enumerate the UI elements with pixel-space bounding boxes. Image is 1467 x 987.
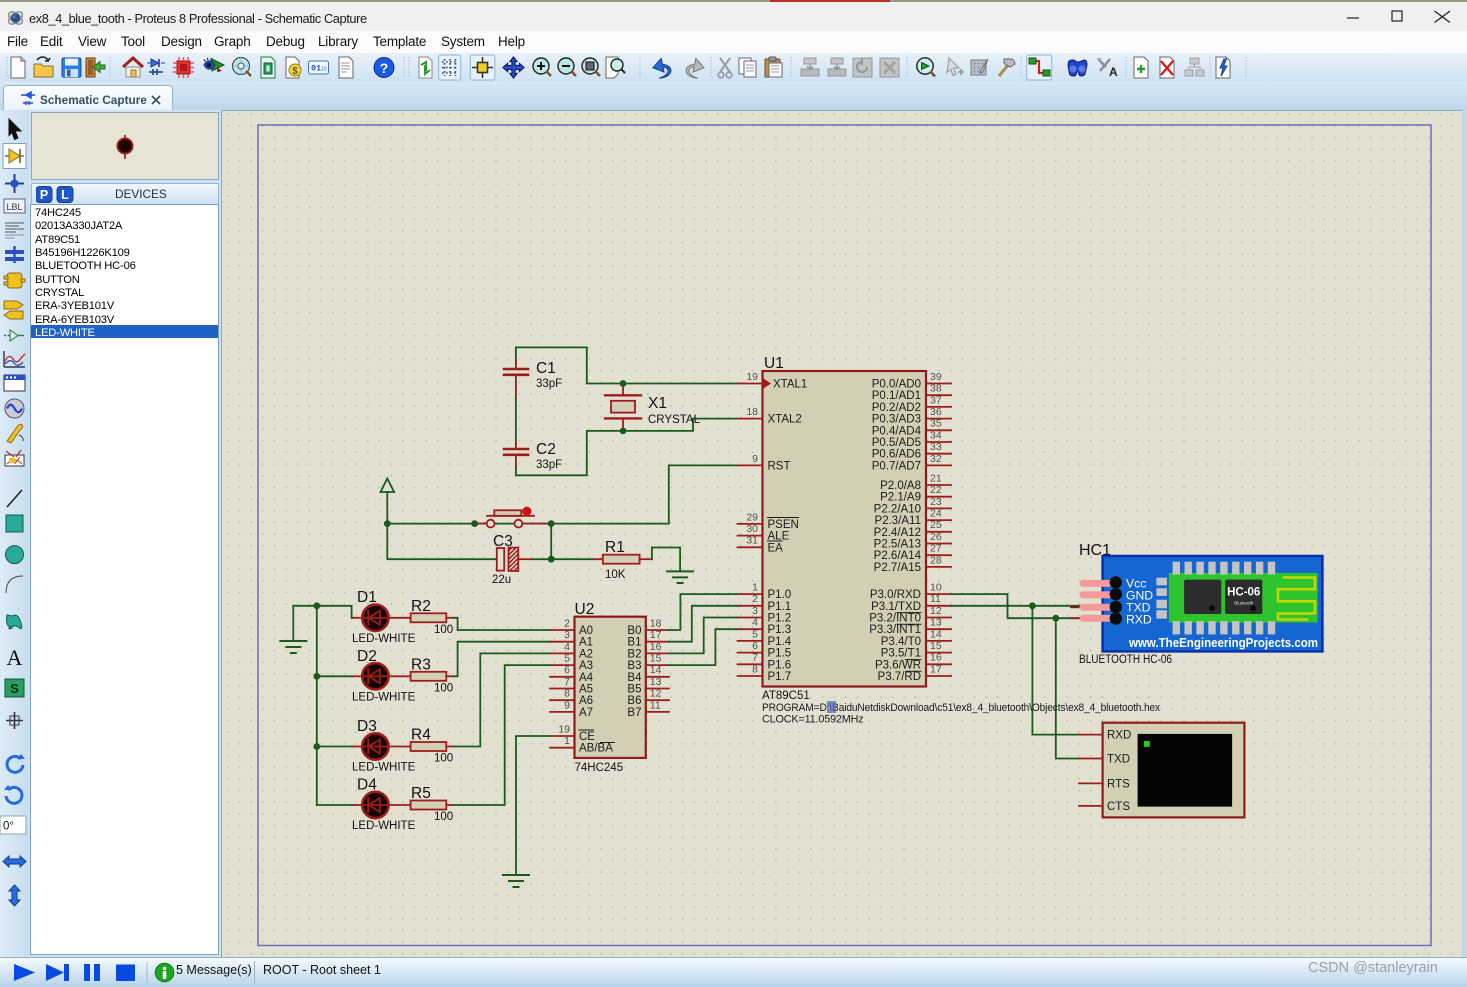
svg-text:12: 12 — [650, 688, 662, 700]
svg-text:15: 15 — [930, 640, 942, 652]
svg-text:33: 33 — [930, 441, 942, 453]
svg-text:A1: A1 — [579, 637, 593, 649]
component mode tool (selected) — [5, 149, 24, 163]
svg-text:P3.5/T1: P3.5/T1 — [881, 648, 921, 660]
subcircuit mode — [4, 273, 25, 288]
svg-text:B1: B1 — [627, 637, 641, 649]
resistor R4 100 — [389, 727, 454, 765]
svg-text:D2: D2 — [357, 648, 377, 665]
svg-text:P1.1: P1.1 — [768, 601, 792, 613]
text script mode — [5, 223, 24, 238]
svg-text:A5: A5 — [579, 684, 593, 696]
svg-text:1: 1 — [564, 735, 570, 747]
svg-text:36: 36 — [930, 406, 942, 418]
svg-text:A6: A6 — [579, 695, 593, 707]
svg-text:P0.3/AD3: P0.3/AD3 — [872, 414, 921, 426]
node junction on XTAL2 wire — [620, 428, 627, 435]
svg-text:P3.1/TXD: P3.1/TXD — [871, 601, 921, 613]
block delete (disabled) — [880, 58, 899, 77]
svg-text:LBL: LBL — [6, 202, 22, 212]
virtual terminal — [1079, 723, 1244, 818]
svg-text:R2: R2 — [411, 598, 431, 615]
node junction TXD — [1029, 602, 1036, 609]
wire R1 to ground — [652, 548, 680, 572]
svg-text:A3: A3 — [579, 660, 593, 672]
svg-text:P2.1/A9: P2.1/A9 — [880, 492, 921, 504]
svg-text:P2.5/A13: P2.5/A13 — [874, 539, 921, 551]
svg-text:17: 17 — [930, 663, 942, 675]
wire ground to LED rail — [293, 606, 317, 805]
svg-text:P1.4: P1.4 — [768, 636, 792, 648]
svg-text:PSEN: PSEN — [768, 519, 799, 531]
svg-text:34: 34 — [930, 429, 942, 441]
svg-text:2: 2 — [752, 593, 758, 605]
2d circle — [6, 546, 24, 564]
wire RXD net to terminal TXD — [1056, 618, 1079, 758]
svg-text:RST: RST — [768, 460, 791, 472]
svg-text:10: 10 — [321, 67, 327, 73]
svg-text:P1.5: P1.5 — [768, 648, 792, 660]
svg-text:11: 11 — [930, 593, 941, 605]
wire rail to D4 — [317, 804, 353, 806]
svg-text:P0.7/AD7: P0.7/AD7 — [872, 460, 921, 472]
edit pattern — [971, 59, 988, 75]
svg-text:01: 01 — [311, 64, 321, 74]
svg-text:1: 1 — [752, 582, 758, 594]
2d arc — [6, 576, 23, 593]
svg-text:R4: R4 — [411, 727, 431, 744]
buffer U2 74HC245 body — [575, 601, 646, 774]
property assignment — [1097, 58, 1118, 79]
rotate clockwise — [7, 754, 25, 772]
origin — [472, 57, 493, 78]
svg-text:TXD: TXD — [1107, 754, 1130, 766]
redraw — [419, 57, 432, 78]
svg-text:13: 13 — [650, 676, 662, 688]
U1 pin EA (31) — [738, 535, 784, 555]
wire C1 bottom to C2 top — [515, 399, 517, 444]
node junction C3/R1 — [548, 556, 555, 563]
U2 pin AB/BA (1) — [550, 735, 615, 755]
wire RST net — [387, 465, 737, 523]
svg-text:L: L — [61, 188, 69, 202]
svg-text:100: 100 — [434, 811, 453, 823]
graph mode — [4, 351, 25, 367]
wire C3 to R1 — [532, 558, 593, 560]
svg-text:P2.0/A8: P2.0/A8 — [880, 480, 921, 492]
text cursor artifact — [827, 701, 836, 713]
cut — [718, 58, 732, 78]
svg-text:3: 3 — [752, 605, 758, 617]
2d line — [7, 490, 22, 507]
zoom in — [533, 58, 551, 76]
svg-text:25: 25 — [930, 519, 942, 531]
U1 pin XTAL2 (18) — [738, 406, 802, 426]
svg-text:P2.7/A15: P2.7/A15 — [874, 562, 921, 574]
svg-text:C2: C2 — [536, 441, 556, 458]
node junction button left — [471, 520, 478, 527]
copy — [739, 58, 756, 77]
U2 pin CE (19) — [550, 723, 595, 743]
svg-text:LED-WHITE: LED-WHITE — [352, 633, 416, 645]
svg-text:8: 8 — [752, 663, 758, 675]
svg-text:LED-WHITE: LED-WHITE — [352, 762, 416, 774]
svg-text:HC-06: HC-06 — [1227, 587, 1260, 599]
pcb layout — [173, 57, 194, 78]
svg-text:R1: R1 — [605, 539, 625, 556]
svg-text:P1.3: P1.3 — [768, 624, 792, 636]
y-mirror — [9, 885, 20, 906]
svg-text:CLOCK=11.0592MHz: CLOCK=11.0592MHz — [762, 714, 864, 726]
svg-text:100: 100 — [434, 683, 453, 695]
svg-text:P3.3/INT1: P3.3/INT1 — [869, 624, 921, 636]
wire R5 to U2 A3 — [453, 665, 550, 805]
svg-text:CRYSTAL: CRYSTAL — [648, 414, 701, 426]
svg-text:P3.7/RD: P3.7/RD — [878, 671, 921, 683]
zoom area — [582, 58, 600, 76]
bluetooth module HC1 — [1071, 542, 1322, 651]
svg-text:CTS: CTS — [1107, 801, 1130, 813]
pan — [503, 57, 524, 78]
svg-text:15: 15 — [650, 653, 662, 665]
2d symbol — [5, 679, 24, 697]
wire R2 to U2 A0 — [453, 618, 550, 630]
schematic capture — [147, 59, 165, 75]
design properties — [1216, 57, 1230, 78]
svg-text:P1.7: P1.7 — [768, 671, 792, 683]
2d marker — [6, 712, 23, 729]
tape recorder mode — [4, 375, 25, 391]
wire P3.0 to HC1 RXD — [951, 594, 1082, 618]
redo — [685, 57, 706, 79]
svg-text:5: 5 — [564, 653, 570, 665]
svg-text:3: 3 — [564, 629, 570, 641]
bill of materials — [286, 57, 301, 78]
hammer — [999, 59, 1015, 76]
svg-text:9: 9 — [564, 699, 570, 711]
gerber viewer — [233, 58, 252, 77]
wire label mode — [4, 199, 25, 213]
svg-text:R5: R5 — [411, 785, 431, 802]
svg-text:33pF: 33pF — [536, 378, 562, 390]
svg-text:B6: B6 — [627, 695, 641, 707]
wire rail to D1 — [317, 606, 353, 618]
capacitor C2 — [504, 441, 562, 471]
svg-text:P1.0: P1.0 — [768, 589, 792, 601]
svg-text:22: 22 — [930, 484, 942, 496]
svg-text:B4: B4 — [627, 672, 642, 684]
buses mode — [5, 246, 24, 263]
svg-text:7: 7 — [564, 676, 570, 688]
node junction rail top — [313, 602, 320, 609]
svg-text:C3: C3 — [493, 533, 513, 550]
svg-text:C1: C1 — [536, 360, 556, 377]
ground (U2 CE) — [503, 875, 529, 887]
U1 pins P2.0/A8-P2.7/A15 (21-28) — [874, 472, 951, 574]
svg-text:23: 23 — [930, 496, 942, 508]
button (reset pushbutton) — [475, 507, 551, 528]
wire TXD net to terminal RXD — [1032, 606, 1079, 735]
svg-text:www.TheEngineeringProjects.com: www.TheEngineeringProjects.com — [1128, 636, 1318, 650]
power terminal VCC — [381, 479, 395, 524]
node junction RXD — [1052, 615, 1059, 622]
svg-text:16: 16 — [650, 641, 662, 653]
svg-text:P2.3/A11: P2.3/A11 — [875, 515, 921, 527]
notes — [339, 57, 353, 78]
wire CE to ground — [516, 736, 550, 875]
svg-text:B2: B2 — [627, 648, 641, 660]
svg-text:U2: U2 — [575, 601, 595, 618]
wire P3.1 to HC1 TXD — [951, 605, 1082, 607]
node junction button right — [548, 520, 555, 527]
svg-text:XTAL2: XTAL2 — [768, 414, 802, 426]
svg-text:Bluetooth: Bluetooth — [1234, 601, 1254, 606]
wire B0 to P1.0 — [669, 594, 738, 630]
svg-text:31: 31 — [746, 535, 758, 547]
svg-text:14: 14 — [650, 664, 662, 676]
capacitor C1 — [504, 360, 562, 399]
svg-text:19: 19 — [746, 371, 758, 383]
svg-text:P3.6/WR: P3.6/WR — [875, 659, 921, 671]
svg-text:32: 32 — [930, 453, 942, 465]
resistor R1 10K — [593, 539, 652, 581]
svg-text:S: S — [10, 681, 19, 696]
crystal X1 — [605, 384, 701, 431]
svg-text:P3.2/INT0: P3.2/INT0 — [869, 613, 921, 625]
svg-text:BLUETOOTH HC-06: BLUETOOTH HC-06 — [1079, 654, 1172, 666]
svg-text:19: 19 — [558, 723, 570, 735]
electrical rule check — [309, 61, 329, 74]
svg-text:18: 18 — [746, 406, 758, 418]
svg-text:P2.2/A10: P2.2/A10 — [874, 503, 921, 515]
U1 pin XTAL1 (19) — [738, 371, 808, 391]
LED D1 — [352, 589, 416, 645]
U1 pins P0.0/AD0-P0.7/AD7 (39-32) — [872, 371, 951, 473]
svg-text:PROGRAM=D:\BaiduNetdiskDownloa: PROGRAM=D:\BaiduNetdiskDownload\c51\ex8_… — [762, 702, 1161, 714]
svg-text:30: 30 — [746, 523, 758, 535]
zoom sheet — [606, 57, 625, 78]
svg-text:5: 5 — [752, 628, 758, 640]
svg-text:AB/BA: AB/BA — [579, 743, 613, 755]
junction dot mode — [5, 174, 24, 193]
wire B2 to P1.2 — [669, 618, 738, 654]
svg-text:21: 21 — [930, 472, 942, 484]
U1 pin PSEN (29) — [738, 511, 799, 531]
new sheet — [1134, 57, 1148, 78]
svg-text:P0.1/AD1: P0.1/AD1 — [872, 390, 921, 402]
wire XTAL1 net: C1 top to U1 XTAL1 — [516, 347, 738, 383]
svg-text:26: 26 — [930, 531, 942, 543]
svg-text:LED-WHITE: LED-WHITE — [352, 820, 416, 832]
svg-text:A: A — [7, 645, 23, 670]
wire XTAL2 net: C2 bottom to U1 XTAL2 — [516, 419, 738, 476]
svg-text:U1: U1 — [764, 355, 784, 372]
3d visualizer — [204, 58, 224, 72]
svg-text:P1.6: P1.6 — [768, 659, 792, 671]
svg-text:D4: D4 — [357, 777, 377, 794]
svg-text:A: A — [1109, 65, 1118, 79]
svg-text:RXD: RXD — [1126, 613, 1152, 627]
svg-text:7: 7 — [752, 652, 758, 664]
U1 pin RST (9) — [738, 453, 791, 473]
svg-text:XTAL1: XTAL1 — [773, 379, 807, 391]
svg-text:37: 37 — [930, 394, 942, 406]
svg-text:P0.4/AD4: P0.4/AD4 — [872, 425, 922, 437]
svg-text:27: 27 — [930, 543, 942, 555]
resistor R2 100 — [389, 598, 454, 636]
design explorer — [261, 57, 275, 78]
svg-text:A4: A4 — [579, 672, 594, 684]
svg-text:10: 10 — [930, 582, 942, 594]
svg-text:0°: 0° — [3, 821, 14, 833]
node junction on XTAL1 wire — [620, 380, 627, 387]
svg-text:R3: R3 — [411, 657, 431, 674]
terminal mode — [4, 301, 23, 319]
block copy (disabled) — [801, 58, 819, 76]
wire VCC rail down to C3 row — [387, 524, 497, 560]
2d box — [6, 515, 23, 532]
node junction VCC — [384, 520, 391, 527]
capacitor C3 22u — [492, 533, 532, 586]
svg-text:9: 9 — [752, 453, 758, 465]
grid toggle — [442, 59, 458, 76]
wire R3 to U2 A1 — [453, 642, 550, 677]
svg-text:4: 4 — [564, 641, 570, 653]
2d path — [7, 615, 22, 629]
svg-text:14: 14 — [930, 628, 942, 640]
wire R4 to U2 A2 — [453, 653, 550, 746]
svg-text:P3.4/T0: P3.4/T0 — [881, 636, 921, 648]
ground (LED rail) — [280, 606, 306, 653]
svg-text:12: 12 — [930, 605, 942, 617]
remove sheet — [1160, 57, 1174, 78]
goto sheet (disabled) — [1185, 58, 1204, 76]
svg-text:RXD: RXD — [1107, 730, 1131, 742]
resistor R3 100 — [389, 657, 454, 695]
wire B1 to P1.1 — [669, 606, 738, 642]
svg-text:P0.5/AD5: P0.5/AD5 — [872, 437, 921, 449]
svg-text:A7: A7 — [579, 707, 593, 719]
node junction rail D3 — [313, 743, 320, 750]
svg-text:18: 18 — [650, 617, 662, 629]
svg-text:28: 28 — [930, 554, 942, 566]
LED D2 — [352, 648, 416, 704]
svg-text:B0: B0 — [627, 625, 641, 637]
LED D3 — [352, 718, 416, 774]
svg-text:A0: A0 — [579, 625, 593, 637]
svg-text:74HC245: 74HC245 — [575, 762, 624, 774]
home — [123, 58, 143, 77]
svg-text:B3: B3 — [627, 660, 641, 672]
svg-text:33pF: 33pF — [536, 459, 562, 471]
svg-text:13: 13 — [930, 617, 942, 629]
wire rail to D3 — [317, 746, 353, 748]
open — [34, 57, 53, 77]
LED-WHITE preview symbol — [32, 113, 218, 179]
svg-text:38: 38 — [930, 383, 942, 395]
svg-text:16: 16 — [930, 652, 942, 664]
x-mirror — [3, 856, 26, 867]
svg-text:P1.2: P1.2 — [768, 613, 792, 625]
svg-text:17: 17 — [650, 629, 662, 641]
svg-text:6: 6 — [752, 640, 758, 652]
U1 pin ALE (30) — [738, 523, 790, 543]
U2 pins B0-B7 (18-11) — [627, 617, 669, 719]
rotation angle box — [0, 816, 26, 834]
block rotate (disabled) — [853, 58, 872, 77]
svg-text:LED-WHITE: LED-WHITE — [352, 692, 416, 704]
search and tag — [1068, 60, 1087, 76]
wire button to C3 row — [550, 524, 552, 560]
current probe mode — [5, 450, 24, 466]
svg-text:39: 39 — [930, 371, 942, 383]
ground (R1) — [667, 571, 693, 583]
undo — [651, 57, 672, 79]
svg-text:10K: 10K — [605, 569, 626, 581]
save — [62, 58, 81, 77]
app icon — [7, 10, 24, 26]
svg-text:100: 100 — [434, 753, 453, 765]
voltage probe mode — [7, 424, 23, 443]
resistor R5 100 — [389, 785, 454, 823]
U1 PROGRAM/CLOCK property text — [762, 702, 1161, 726]
svg-text:D3: D3 — [357, 718, 377, 735]
U1 pins P3.0/RXD-P3.7/RD (10-17) — [869, 582, 951, 684]
selection pointer tool — [9, 119, 21, 140]
svg-text:AT89C51: AT89C51 — [762, 690, 810, 702]
svg-text:22u: 22u — [492, 574, 511, 586]
wire rail to D2 — [317, 675, 353, 677]
wire B3 to P1.3 — [669, 629, 738, 665]
LED D4 — [352, 777, 416, 833]
zoom out — [558, 58, 576, 76]
svg-text:P0.2/AD2: P0.2/AD2 — [872, 402, 921, 414]
svg-text:P2.4/A12: P2.4/A12 — [874, 527, 921, 539]
svg-text:B7: B7 — [627, 707, 641, 719]
svg-text:RTS: RTS — [1107, 778, 1130, 790]
generator mode — [5, 399, 24, 418]
block move (disabled) — [828, 58, 846, 76]
new — [11, 57, 25, 78]
svg-text:24: 24 — [930, 508, 942, 520]
svg-text:35: 35 — [930, 418, 942, 430]
op-amp U1 AT89C51 body — [762, 355, 926, 702]
paste — [765, 57, 782, 77]
svg-text:29: 29 — [746, 511, 758, 523]
U1 pins P1.0-P1.7 (1-8) — [738, 582, 792, 684]
svg-text:P0.0/AD0: P0.0/AD0 — [872, 379, 921, 391]
node junction rail D2 — [313, 673, 320, 680]
svg-text:P2.6/A14: P2.6/A14 — [874, 550, 922, 562]
svg-text:D1: D1 — [357, 589, 377, 606]
svg-text:4: 4 — [752, 617, 758, 629]
zoom to selection — [917, 58, 935, 77]
svg-text:11: 11 — [650, 699, 661, 711]
svg-text:?: ? — [380, 60, 389, 76]
svg-text:P3.0/RXD: P3.0/RXD — [870, 589, 921, 601]
svg-text:P: P — [40, 188, 48, 202]
svg-text:6: 6 — [564, 664, 570, 676]
svg-text:100: 100 — [434, 624, 453, 636]
rotate anticlockwise — [4, 785, 22, 803]
help — [374, 58, 394, 78]
svg-text:8: 8 — [564, 688, 570, 700]
wire autorouter — [1029, 58, 1050, 76]
svg-text:B5: B5 — [627, 684, 641, 696]
sheet border — [258, 125, 1431, 946]
snap pointer — [947, 58, 964, 76]
import/exit — [86, 58, 105, 77]
